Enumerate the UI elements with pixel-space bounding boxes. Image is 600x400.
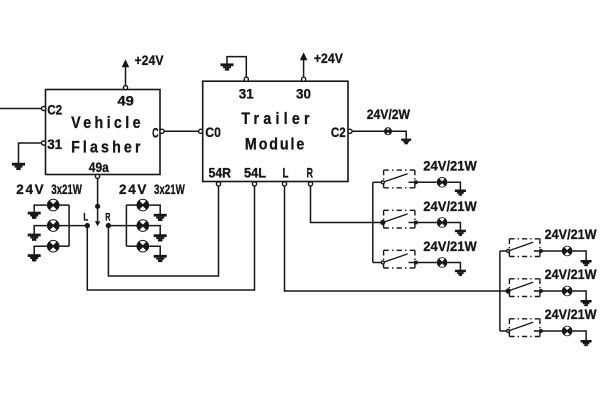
svg-text:24V/21W: 24V/21W — [545, 267, 597, 282]
ground — [455, 230, 466, 236]
pin L — [282, 182, 286, 186]
svg-text:54R: 54R — [209, 164, 232, 180]
node L — [85, 223, 90, 228]
lamp E6 — [137, 240, 150, 253]
switch S1 right lead — [409, 181, 415, 183]
switch S3 branch — [373, 239, 477, 276]
switch S4 branch — [500, 227, 597, 266]
switch S2 branch — [380, 199, 477, 236]
lamp E5 — [137, 219, 150, 232]
wire 49a to switch — [97, 178, 99, 221]
switch S1 blade — [383, 174, 408, 183]
wire 30 to +24V — [303, 59, 305, 77]
ground — [455, 270, 466, 276]
svg-text:49: 49 — [117, 92, 134, 108]
lamp 24V/2W — [384, 127, 392, 135]
svg-text:3x21W: 3x21W — [51, 182, 82, 197]
switch S1 box — [384, 170, 415, 188]
switch S2 blade — [383, 214, 408, 223]
wire E4 to ground — [149, 205, 160, 214]
svg-text:24V/21W: 24V/21W — [423, 159, 477, 174]
wire node R to E5 — [108, 225, 136, 227]
svg-text:3x21W: 3x21W — [154, 182, 185, 197]
lamp E8 — [437, 217, 448, 228]
wire E3 to ground — [34, 246, 47, 254]
lamp E3 — [47, 240, 60, 253]
trailer module U2 box — [203, 81, 348, 181]
wire bus to S3 — [373, 262, 381, 264]
pin C2 — [42, 106, 46, 110]
wire left cluster bus — [68, 205, 70, 246]
wire C2 to lamp — [352, 130, 384, 132]
switch S4 right lead — [534, 250, 540, 252]
switch S6 box — [509, 319, 540, 337]
wire R to middle group — [311, 186, 383, 223]
wire outer group bus — [499, 251, 501, 331]
wire C to C0 — [164, 130, 199, 132]
pin C0 — [199, 129, 203, 133]
switch S4 blade — [508, 242, 533, 251]
svg-text:31: 31 — [239, 85, 254, 101]
pin 49a — [95, 174, 99, 178]
switch S6 right lead — [534, 330, 540, 332]
svg-text:49a: 49a — [89, 159, 109, 175]
lamp E4 — [137, 199, 150, 212]
svg-text:24V/21W: 24V/21W — [545, 307, 597, 322]
ground — [401, 139, 411, 145]
lamp E10 — [562, 246, 573, 257]
pin 54L — [252, 182, 256, 186]
wire S2 to lamp — [418, 222, 437, 224]
svg-text:24V: 24V — [119, 182, 146, 197]
ground — [154, 234, 167, 241]
switch S1 branch — [373, 159, 477, 196]
wire bus to S1 — [373, 181, 381, 183]
wire E1 to ground — [34, 205, 47, 212]
wire E12 to ground — [573, 331, 587, 340]
svg-text:L: L — [83, 212, 88, 224]
junction node S2 — [380, 220, 385, 225]
ground — [12, 163, 25, 170]
ground — [154, 255, 167, 262]
wire input to C2 — [0, 108, 42, 110]
wire S6 to lamp — [543, 330, 562, 332]
wire 31 to ground — [227, 57, 246, 78]
svg-text:+24V: +24V — [135, 53, 164, 68]
pin 31 — [42, 141, 46, 145]
switch S2 contact right — [414, 221, 418, 225]
svg-text:24V/21W: 24V/21W — [423, 199, 477, 214]
svg-text:L: L — [283, 164, 289, 180]
switch S6 contact right — [539, 329, 543, 333]
svg-text:R: R — [306, 164, 313, 180]
lamp E12 — [562, 326, 573, 337]
svg-text:C0: C0 — [205, 124, 221, 140]
switch pivot node — [95, 204, 100, 209]
switch S4 contact left — [507, 250, 510, 253]
wire E6 to ground — [149, 246, 160, 255]
switch S5 branch — [506, 267, 597, 306]
svg-text:Module: Module — [245, 136, 305, 154]
wire E2 to ground — [34, 226, 47, 234]
pin R — [308, 182, 312, 186]
switch S2 box — [384, 210, 415, 228]
lamp E1 — [47, 199, 60, 212]
vehicle flasher U1 box — [46, 90, 161, 175]
+24V arrow — [122, 59, 130, 67]
ground — [455, 190, 466, 196]
svg-text:30: 30 — [296, 85, 311, 101]
pin 30 — [302, 77, 306, 81]
wire E3 to bus — [60, 245, 70, 247]
switch S6 blade — [508, 322, 533, 331]
svg-text:C2: C2 — [331, 124, 346, 140]
svg-text:C: C — [152, 124, 159, 140]
svg-text:24V/2W: 24V/2W — [367, 107, 411, 122]
wire node L to 54L — [87, 186, 254, 290]
pin C2 — [348, 129, 352, 133]
switch S3 right lead — [409, 262, 415, 264]
switch S5 blade — [508, 282, 533, 291]
pin C — [160, 129, 164, 133]
wire bus to E6 — [126, 245, 136, 247]
wire node R to 54R — [108, 186, 218, 276]
switch S4 box — [509, 239, 540, 257]
wire E9 to ground — [447, 263, 460, 270]
svg-text:24V/21W: 24V/21W — [545, 227, 597, 242]
switch S3 contact right — [414, 261, 418, 265]
switch S5 box — [509, 279, 540, 297]
switch S2 right lead — [409, 222, 415, 224]
lamp E7 — [437, 177, 448, 188]
wire S4 to lamp — [543, 250, 562, 252]
ground — [221, 63, 234, 70]
wire bus to S6 — [500, 330, 507, 332]
wire right cluster bus — [125, 205, 127, 246]
pin 31 — [244, 77, 248, 81]
switch S4 contact right — [539, 249, 543, 253]
wire E11 to ground — [573, 291, 587, 300]
svg-text:54L: 54L — [244, 164, 266, 180]
svg-text:R: R — [105, 212, 110, 224]
wire bus to S4 — [500, 250, 507, 252]
lamp E9 — [437, 257, 448, 268]
switch S3 box — [384, 250, 415, 268]
wire E10 to ground — [573, 251, 587, 260]
switch S1 contact right — [414, 180, 418, 184]
switch S1 contact left — [381, 181, 384, 184]
ground — [28, 212, 41, 219]
ground — [154, 214, 167, 221]
switch S5 contact right — [539, 289, 543, 293]
ground — [28, 234, 41, 241]
junction node S5 — [506, 288, 511, 293]
svg-text:24V/21W: 24V/21W — [423, 239, 477, 254]
wire 31 to ground — [19, 143, 42, 163]
lamp E11 — [562, 286, 573, 297]
switch S6 branch — [500, 307, 597, 346]
svg-text:24V: 24V — [16, 182, 43, 197]
switch arrow — [95, 221, 100, 226]
ground — [581, 340, 592, 346]
wire E1 to bus — [60, 204, 70, 206]
pin 49 — [123, 86, 127, 90]
svg-text:31: 31 — [47, 136, 62, 152]
pin 54R — [216, 182, 220, 186]
wire E2 to node L — [60, 225, 87, 227]
wire E7 to ground — [447, 182, 460, 189]
wire L to right outer group — [285, 186, 509, 291]
svg-text:+24V: +24V — [314, 51, 343, 66]
switch S5 right lead — [534, 290, 540, 292]
switch S3 blade — [383, 254, 408, 263]
wire 49 to +24V — [125, 66, 127, 86]
ground — [581, 300, 592, 306]
switch S6 contact left — [507, 330, 510, 333]
ground — [28, 254, 41, 261]
switch S3 contact left — [381, 261, 384, 264]
wire E8 to ground — [447, 223, 460, 230]
wire S3 to lamp — [418, 262, 437, 264]
wire lamp to ground — [392, 131, 406, 139]
wire middle group bus — [372, 182, 374, 262]
lamp E2 — [47, 219, 60, 232]
wire E5 to ground — [149, 226, 160, 235]
wire S1 to lamp — [418, 181, 437, 183]
ground — [581, 260, 592, 266]
wire bus to E4 — [126, 204, 136, 206]
svg-text:C2: C2 — [47, 101, 62, 117]
node R — [106, 223, 111, 228]
+24V arrow — [300, 52, 308, 60]
wire S5 to lamp — [543, 290, 562, 292]
